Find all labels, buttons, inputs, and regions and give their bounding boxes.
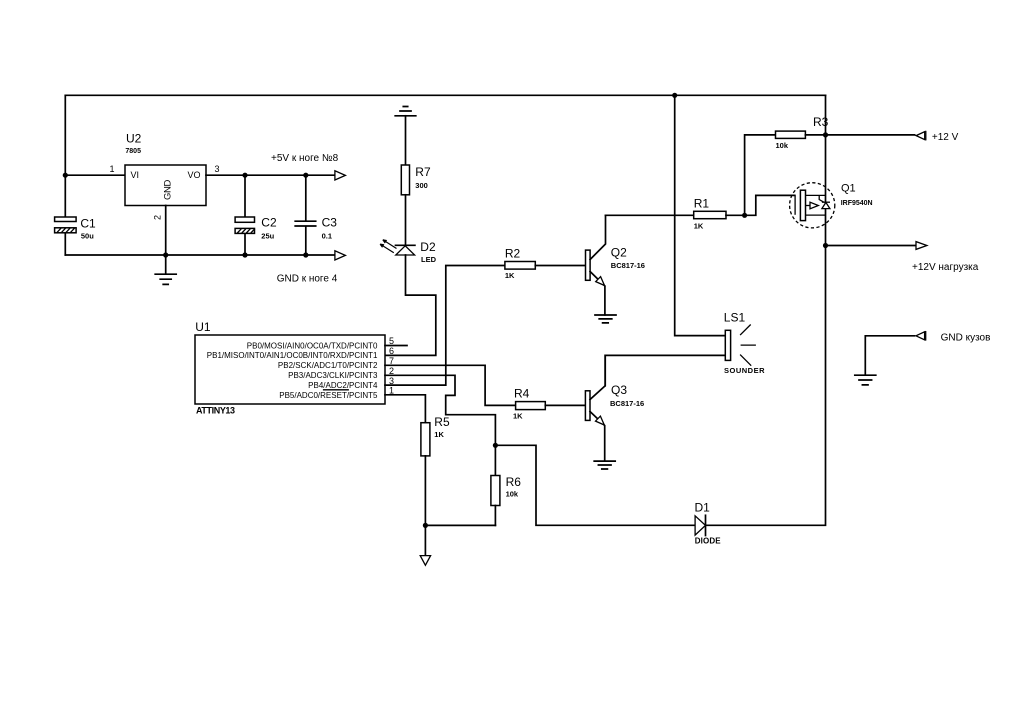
svg-text:C1: C1: [80, 217, 96, 231]
svg-text:BC817-16: BC817-16: [610, 399, 644, 408]
ground arrow: [420, 556, 430, 566]
flag GND kuzov: [916, 331, 991, 344]
resistor R7: [401, 165, 431, 195]
svg-text:C3: C3: [322, 216, 338, 230]
node top rail to sounder: [672, 93, 677, 98]
svg-text:Q1: Q1: [841, 183, 856, 195]
svg-text:1K: 1K: [434, 430, 444, 439]
svg-text:PB4/ADC2/PCINT4: PB4/ADC2/PCINT4: [308, 381, 378, 390]
svg-text:R6: R6: [506, 475, 522, 489]
wire gate step: [745, 195, 795, 215]
svg-text:25u: 25u: [261, 231, 274, 240]
wire C3 vertical top: [305, 175, 307, 220]
node C2 bottom: [242, 252, 247, 257]
wire LS1 to Q3 collector: [605, 355, 725, 385]
ground kuzov: [855, 375, 876, 385]
svg-text:+5V к ноге №8: +5V к ноге №8: [271, 153, 339, 164]
svg-text:BC817-16: BC817-16: [611, 261, 645, 270]
node R6 top junction: [493, 443, 498, 448]
wire R6 top stub: [494, 445, 496, 475]
wire U2 pin 1: [65, 174, 125, 176]
capacitor C3: [295, 216, 337, 241]
transistor Q3: [585, 355, 644, 461]
svg-text:1: 1: [109, 164, 114, 174]
wire left vertical from top rail to C1 node: [64, 95, 66, 217]
wire R4 to Q3 base: [545, 404, 585, 406]
wire pin 7 to R4: [385, 365, 516, 405]
ground below U2: [155, 274, 176, 284]
svg-text:R4: R4: [514, 387, 530, 401]
svg-text:2: 2: [389, 366, 394, 376]
node R3/+12V: [823, 132, 828, 137]
wire D2 to U1 pin 6: [385, 255, 436, 355]
flag GND output: [335, 251, 346, 260]
svg-text:Q3: Q3: [611, 383, 627, 397]
wire R5 to ground rail: [424, 456, 426, 526]
svg-text:1K: 1K: [694, 222, 704, 231]
svg-text:PB2/SCK/ADC1/T0/PCINT2: PB2/SCK/ADC1/T0/PCINT2: [278, 361, 378, 370]
wire stub to ground arrow: [424, 525, 426, 555]
power symbol above R7: [395, 107, 416, 116]
LED arrows: [380, 240, 396, 253]
node U2 pin2 / ground rail: [163, 252, 168, 257]
wire C2 vertical bottom: [244, 233, 246, 255]
svg-text:6: 6: [389, 346, 394, 356]
svg-text:DIODE: DIODE: [695, 536, 721, 545]
svg-text:LED: LED: [421, 255, 437, 264]
svg-text:GND кузов: GND кузов: [941, 333, 991, 344]
svg-text:ATTINY13: ATTINY13: [196, 406, 235, 416]
ground below Q3: [594, 461, 615, 469]
svg-text:VI: VI: [131, 170, 140, 180]
sound waves: [740, 325, 756, 366]
svg-text:1K: 1K: [513, 412, 523, 421]
wire +5V rail from U2 pin 3: [206, 174, 335, 176]
wire pin 1 to R5: [385, 395, 425, 423]
svg-text:LS1: LS1: [724, 311, 746, 325]
svg-text:+12 V: +12 V: [932, 132, 959, 143]
svg-text:C2: C2: [261, 216, 277, 230]
svg-text:PB5/ADC0/RESET/PCINT5: PB5/ADC0/RESET/PCINT5: [279, 391, 378, 400]
resistor R1: [694, 197, 726, 231]
flag +12V input: [916, 131, 959, 143]
svg-text:0.1: 0.1: [322, 231, 332, 240]
svg-text:PB3/ADC3/CLKI/PCINT3: PB3/ADC3/CLKI/PCINT3: [288, 371, 378, 380]
resistor R3: [776, 115, 829, 150]
svg-text:R1: R1: [694, 197, 710, 211]
wire sense line from R6 node to D1: [495, 445, 695, 525]
svg-text:IRF9540N: IRF9540N: [841, 200, 873, 207]
svg-text:VO: VO: [188, 170, 201, 180]
svg-text:50u: 50u: [81, 231, 94, 240]
speaker LS1: [724, 311, 765, 375]
wire U2 pin 2 to ground: [165, 206, 167, 275]
wire +12V load flag: [826, 245, 916, 247]
wire R3 to drain rail: [805, 134, 825, 136]
capacitor C1: [55, 217, 96, 241]
svg-text:R5: R5: [434, 415, 450, 429]
svg-text:GND: GND: [163, 180, 174, 200]
resistor R2: [505, 247, 535, 280]
node C2 top: [242, 173, 247, 178]
svg-text:7805: 7805: [125, 148, 141, 155]
wire R2 to Q2 base: [535, 265, 585, 267]
svg-text:3: 3: [214, 164, 219, 174]
svg-text:GND к ноге 4: GND к ноге 4: [277, 273, 338, 284]
flag +5V output: [335, 171, 346, 180]
wire Q2 collector to R1: [606, 214, 694, 216]
svg-text:U1: U1: [195, 320, 211, 334]
regulator U2 7805: [125, 132, 206, 206]
node C3 bottom: [303, 252, 308, 257]
svg-text:Q2: Q2: [611, 246, 627, 260]
wire top rail to LS1: [675, 95, 726, 335]
node R1/R3/gate: [742, 213, 747, 218]
wire C2 vertical top: [244, 175, 246, 217]
wire pin 2 zigzag to R6 node: [385, 375, 495, 445]
svg-text:10k: 10k: [776, 141, 789, 150]
svg-text:R2: R2: [505, 247, 521, 261]
resistor R6: [491, 475, 521, 506]
svg-text:1K: 1K: [505, 271, 515, 280]
node input at C1/U2 pin1: [63, 173, 68, 178]
wire +12V flag: [826, 134, 915, 136]
svg-text:+12V нагрузка: +12V нагрузка: [912, 262, 979, 273]
wire GND kuzov: [865, 336, 914, 375]
wire R6 bottom stub: [494, 506, 496, 526]
svg-text:2: 2: [153, 215, 163, 220]
transistor Q1 MOSFET: [790, 183, 873, 228]
ground below Q2: [595, 315, 616, 323]
wire pin 3 to R2: [385, 266, 505, 386]
resistor R4: [513, 387, 545, 421]
node +12V load: [823, 243, 828, 248]
svg-text:PB0/MOSI/AIN0/OC0A/TXD/PCINT0: PB0/MOSI/AIN0/OC0A/TXD/PCINT0: [247, 341, 378, 350]
wire ground rail to R6 bottom: [425, 524, 495, 526]
wire gate node up to R3: [745, 135, 776, 215]
wire C3 vertical bottom: [305, 226, 307, 255]
svg-text:U2: U2: [126, 132, 142, 146]
wire power to R7: [405, 116, 407, 165]
svg-text:300: 300: [415, 181, 428, 190]
wire +12V top rail: [65, 94, 825, 96]
svg-text:D1: D1: [695, 501, 711, 515]
diode D1: [695, 501, 722, 546]
svg-text:R7: R7: [415, 165, 431, 179]
svg-text:PB1/MISO/INT0/AIN1/OC0B/INT0/R: PB1/MISO/INT0/AIN1/OC0B/INT0/RXD/PCINT1: [207, 351, 378, 360]
wire C1 bottom to ground rail: [64, 233, 66, 255]
capacitor C2: [235, 216, 277, 241]
diode D2 LED: [396, 240, 437, 264]
U1 ATTINY13 box: [195, 320, 385, 416]
wire drain vertical through Q1: [825, 95, 827, 245]
flag +12V load output: [912, 242, 979, 273]
node C3 top: [303, 173, 308, 178]
wire pin 5 stub: [385, 345, 407, 347]
svg-text:10k: 10k: [506, 489, 519, 498]
wire D1 to +12V load vertical: [706, 246, 826, 526]
svg-text:D2: D2: [420, 240, 436, 254]
wire ground rail bottom left: [65, 254, 335, 256]
wire R7 to D2: [405, 195, 407, 246]
wire R1 to gate node: [726, 214, 745, 216]
transistor Q2: [586, 215, 645, 315]
node ground rail left: [423, 523, 428, 528]
resistor R5: [421, 415, 450, 456]
svg-text:SOUNDER: SOUNDER: [724, 366, 765, 375]
